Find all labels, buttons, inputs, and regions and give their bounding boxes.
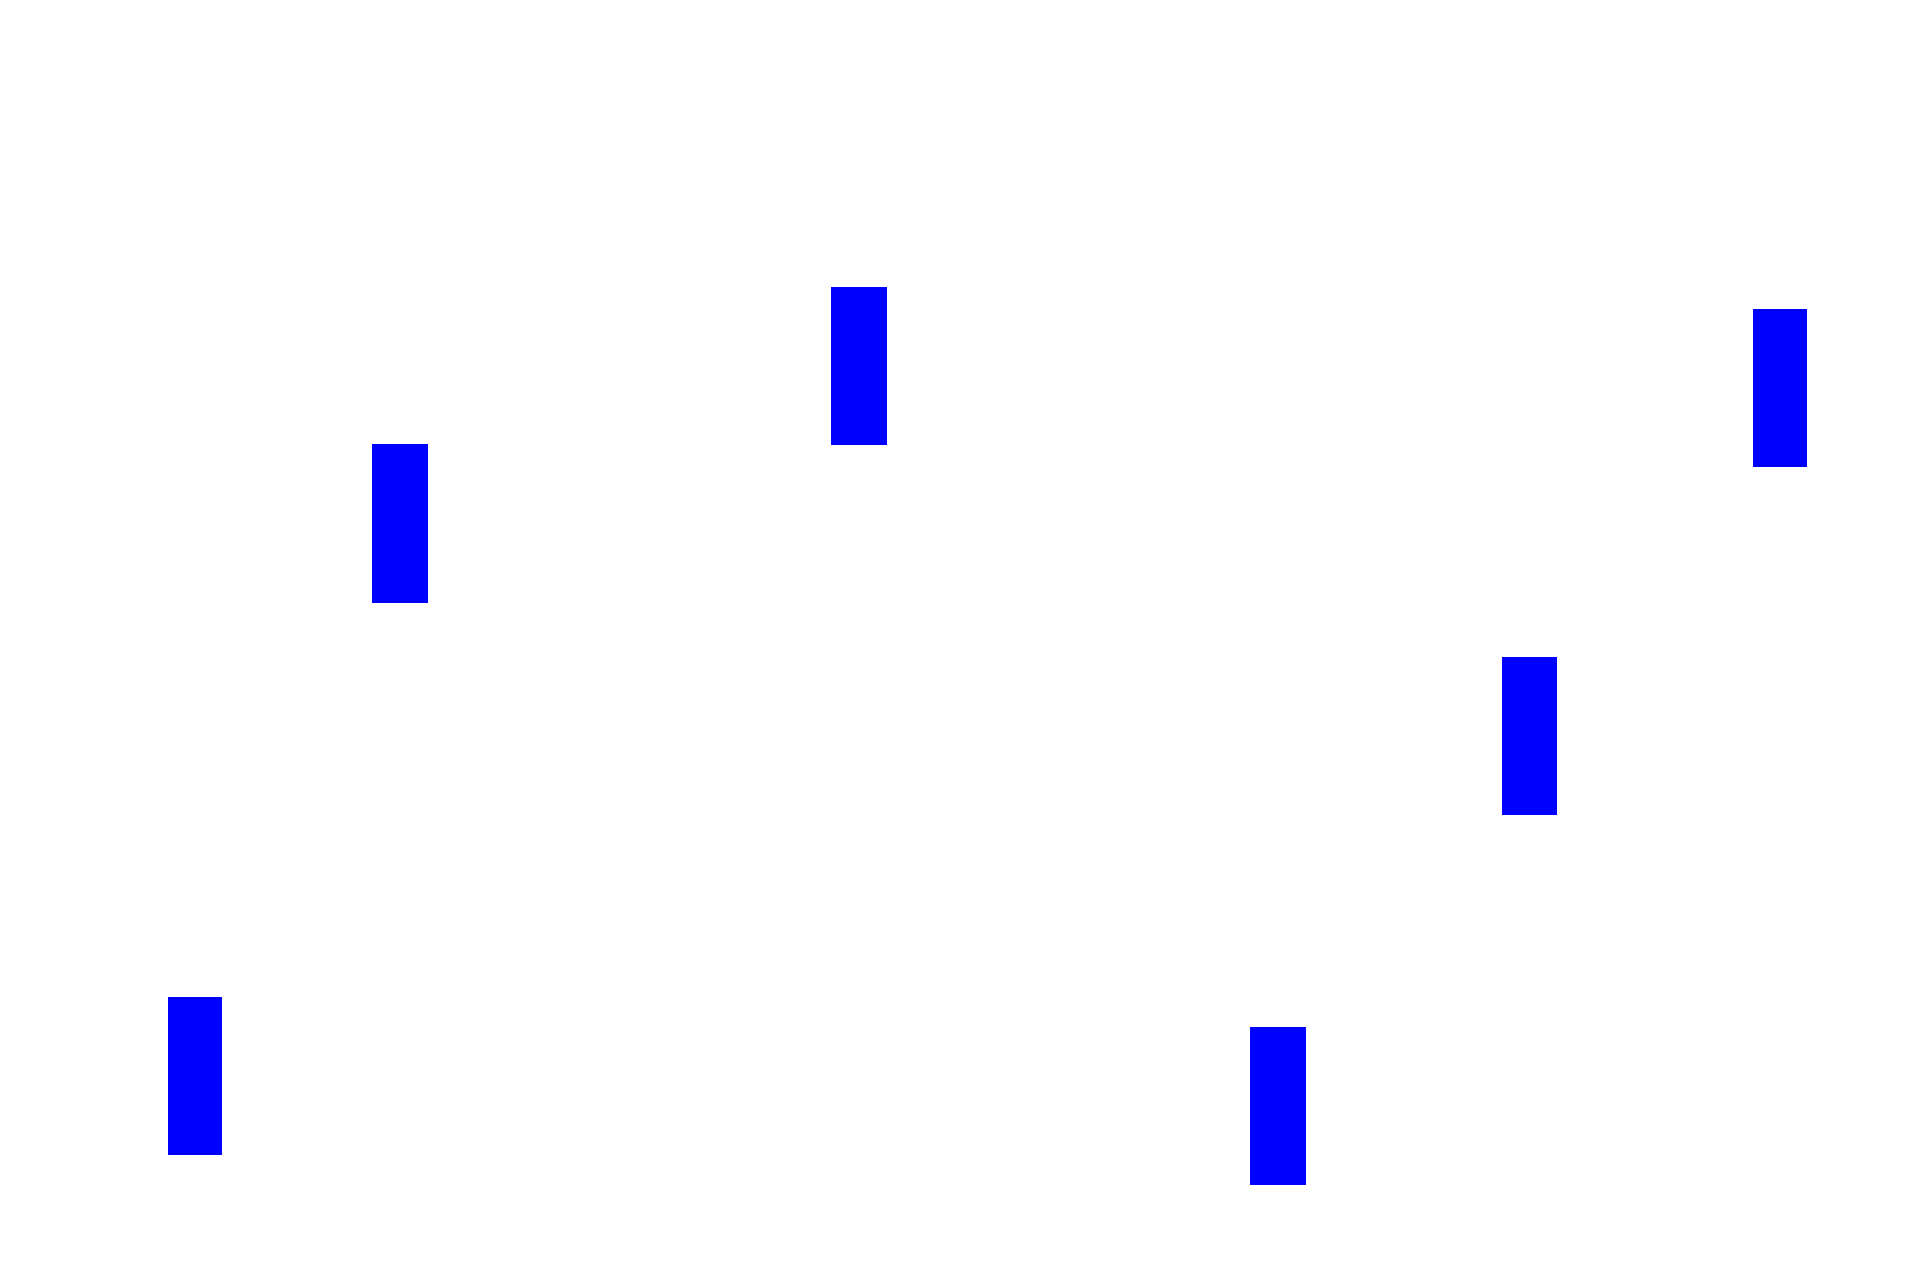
- blue rectangle 4: [1502, 657, 1557, 815]
- blue rectangle 1: [831, 287, 887, 445]
- blue rectangle 3: [1753, 309, 1807, 467]
- blue rectangle 2: [372, 444, 428, 603]
- blue rectangle 5: [168, 997, 222, 1155]
- blue rectangle 6: [1250, 1027, 1306, 1185]
